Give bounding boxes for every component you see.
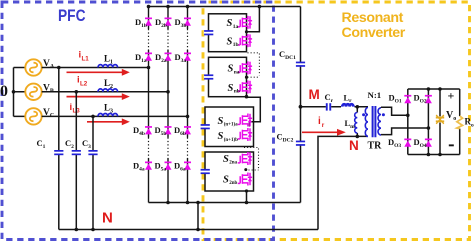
diode DO1 (404, 95, 411, 103)
AC source VB (25, 84, 41, 100)
wire: DC link vertical (300, 7, 302, 203)
svg-text:S: S (223, 154, 229, 165)
wire: output top bus (408, 88, 460, 90)
wire: leg 2 dotted sections (167, 29, 169, 158)
current arrow iL1 (67, 69, 130, 76)
svg-text:2nb: 2nb (229, 181, 237, 186)
junction N rail / C2 (75, 228, 79, 232)
wire: phase C (42, 115, 188, 117)
wire: lower arm bus (149, 202, 301, 204)
junction phase A / C1 (57, 66, 61, 70)
svg-text:N: N (349, 138, 359, 153)
wire: SM2n bottom to arm bus (246, 191, 248, 203)
wire: M node to tank (301, 106, 358, 108)
svg-text:N:1: N:1 (368, 90, 382, 100)
secondary polarity dot (382, 113, 385, 116)
diode D4b (145, 126, 152, 134)
current arrow ir (302, 129, 346, 136)
diode DO3 (404, 139, 411, 147)
diode D2b (165, 18, 172, 26)
junction bottom bus legB (427, 153, 431, 157)
junction phase A / leg1 (147, 66, 151, 70)
wire: top bus P (149, 6, 301, 8)
capacitor of SMn+1 (200, 124, 210, 129)
wire: phase A (42, 67, 149, 69)
junction arm bus leg3 (186, 201, 190, 205)
switch S1b (238, 34, 252, 47)
capacitor CDC1 (296, 62, 306, 67)
switch S2nb (238, 173, 252, 186)
submodule box SM1 (209, 14, 247, 52)
wire: N node to rail (318, 136, 357, 229)
wire: C3 branch (92, 116, 94, 229)
junction arm bus / connector (196, 201, 200, 205)
junction top bus / SM1 (258, 5, 262, 9)
switch S2na (238, 152, 252, 165)
svg-text:TR: TR (368, 141, 383, 152)
wire: leg 3 dotted sections (187, 29, 189, 158)
junction bridge leg B mid (427, 126, 431, 130)
switch Sna (238, 61, 252, 74)
svg-text:1a: 1a (233, 24, 239, 30)
junction arm bus leg2 (166, 201, 170, 205)
junction SMn bottom (245, 95, 249, 99)
junction phase B / C2 (75, 90, 79, 94)
output capacitor Co (436, 89, 444, 155)
svg-text:na: na (234, 70, 240, 76)
transformer TR primary (357, 107, 368, 137)
wire: SM1 midpoint to top bus (247, 7, 260, 32)
AC source VA (25, 59, 41, 75)
transformer TR secondary (378, 108, 381, 135)
junction top bus legB (427, 87, 431, 91)
junction phase C / leg3 (186, 115, 190, 119)
svg-text:S: S (223, 174, 229, 185)
svg-text:i: i (318, 116, 321, 127)
junction top bus Co (438, 87, 442, 91)
primary polarity dot (362, 113, 365, 116)
svg-text:PFC: PFC (58, 7, 86, 25)
junction top bus leg2 (166, 5, 170, 9)
junction Lm bottom (356, 135, 360, 139)
svg-text:M: M (309, 87, 320, 102)
wire: arm bus to N rail connector (197, 203, 199, 230)
AC source VC (25, 108, 41, 124)
wire: SMn bottom hook to SMn+1 midpoint (247, 97, 261, 126)
svg-text:2na: 2na (229, 161, 237, 166)
wire: neutral left rail (14, 68, 26, 117)
svg-text:N: N (102, 210, 113, 227)
junction SM1 midpoint (245, 30, 248, 33)
switch S1a (238, 16, 252, 29)
wire: dotted chain SMn+1 to SM2n (244, 147, 259, 149)
svg-text:S: S (227, 18, 233, 29)
svg-text:S: S (227, 36, 233, 47)
diode D4a (145, 162, 152, 170)
svg-text:(n+1)b: (n+1)b (224, 138, 238, 143)
submodule box SM2n (205, 152, 254, 191)
junction tank / Lm (356, 105, 360, 109)
wire: C2 branch (75, 92, 77, 230)
capacitor C2 (71, 150, 81, 155)
wire: neutral N rail (59, 229, 318, 231)
svg-text:1b: 1b (233, 42, 239, 48)
wire: leg 1 dotted sections (148, 29, 150, 158)
junction phase B / leg2 (166, 90, 170, 94)
label - (449, 144, 454, 146)
load resistor Ro (457, 89, 463, 155)
inductor L2 (98, 89, 118, 92)
capacitor of SM1 (204, 30, 214, 35)
inductor Lr (342, 104, 353, 106)
svg-text:L1: L1 (82, 56, 90, 63)
junction SM2n midpoint (244, 168, 247, 171)
svg-text:L2: L2 (80, 81, 88, 88)
svg-text:0: 0 (0, 83, 8, 100)
svg-text:(n+1)a: (n+1)a (224, 123, 238, 128)
capacitor CDC2 (296, 141, 306, 146)
inductor Lm (magnetizing) (355, 107, 358, 137)
Resonant Converter dashed boundary box (yellow) (203, 2, 470, 240)
junction SM2n bottom (245, 189, 248, 192)
capacitor of SM2n (200, 169, 210, 174)
diode DO4 (425, 139, 432, 147)
switch Sn+1b (238, 128, 252, 141)
svg-text:S: S (228, 64, 234, 75)
junction top bus leg3 (186, 5, 190, 9)
junction phase C / C3 (91, 115, 95, 119)
wire: bridge leg A (407, 89, 409, 155)
junction bottom bus Co (438, 153, 442, 157)
diode D5b (165, 126, 172, 134)
diode DO2 (425, 95, 432, 103)
junction node M (299, 105, 303, 109)
inductor L1 (98, 65, 118, 68)
junction bridge leg A mid (406, 114, 410, 118)
wire: leg 3 (phase C) (187, 7, 189, 203)
submodule box SMn+1 (205, 107, 254, 147)
svg-text:Converter: Converter (342, 25, 406, 41)
submodule box SMn (209, 57, 247, 96)
capacitor C3 (88, 150, 98, 155)
current arrow iL3 (87, 118, 130, 125)
junction top bus leg1 (147, 5, 151, 9)
capacitor Cr (323, 103, 336, 110)
diode D5a (165, 162, 172, 170)
wire: leg 2 (phase B) (167, 7, 169, 203)
diode D6b (184, 126, 191, 134)
junction arm bus / SM2n (245, 201, 249, 205)
switch Snb (238, 81, 252, 94)
svg-text:+: + (448, 89, 455, 103)
capacitor C1 (54, 150, 64, 155)
inductor L3 (98, 114, 118, 117)
transformer core (373, 106, 376, 137)
diode D6a (184, 162, 191, 170)
PFC dashed boundary box (blue) (2, 2, 274, 240)
diode D2a (165, 53, 172, 61)
diode D1b (145, 18, 152, 26)
wire: bridge leg B (427, 89, 429, 155)
svg-text:nb: nb (234, 89, 240, 95)
switch Sn+1a (238, 114, 252, 127)
svg-text:S: S (218, 131, 224, 142)
wire: secondary bottom to bridge (381, 128, 428, 135)
junction N rail / C3 (91, 228, 95, 232)
capacitor of SMn (204, 74, 214, 79)
diode D1a (145, 53, 152, 61)
svg-text:S: S (228, 83, 234, 94)
wire: output bottom bus (408, 154, 460, 156)
junction SMn midpoint (245, 76, 248, 79)
svg-text:S: S (218, 116, 224, 127)
wire: phase B (42, 91, 168, 93)
junction on left rail (phase B tap) (12, 90, 16, 94)
wire: leg 1 (phase A) (148, 7, 150, 203)
diode D3a (184, 53, 191, 61)
svg-text:Resonant: Resonant (342, 10, 404, 26)
diode D3b (184, 18, 191, 26)
wire: secondary top to bridge (381, 107, 408, 115)
wire: dotted chain SM1 to SMn (248, 52, 259, 54)
current arrow iL2 (67, 93, 130, 100)
wire: C1 branch (58, 68, 60, 230)
junction N rail / connector (196, 228, 200, 232)
